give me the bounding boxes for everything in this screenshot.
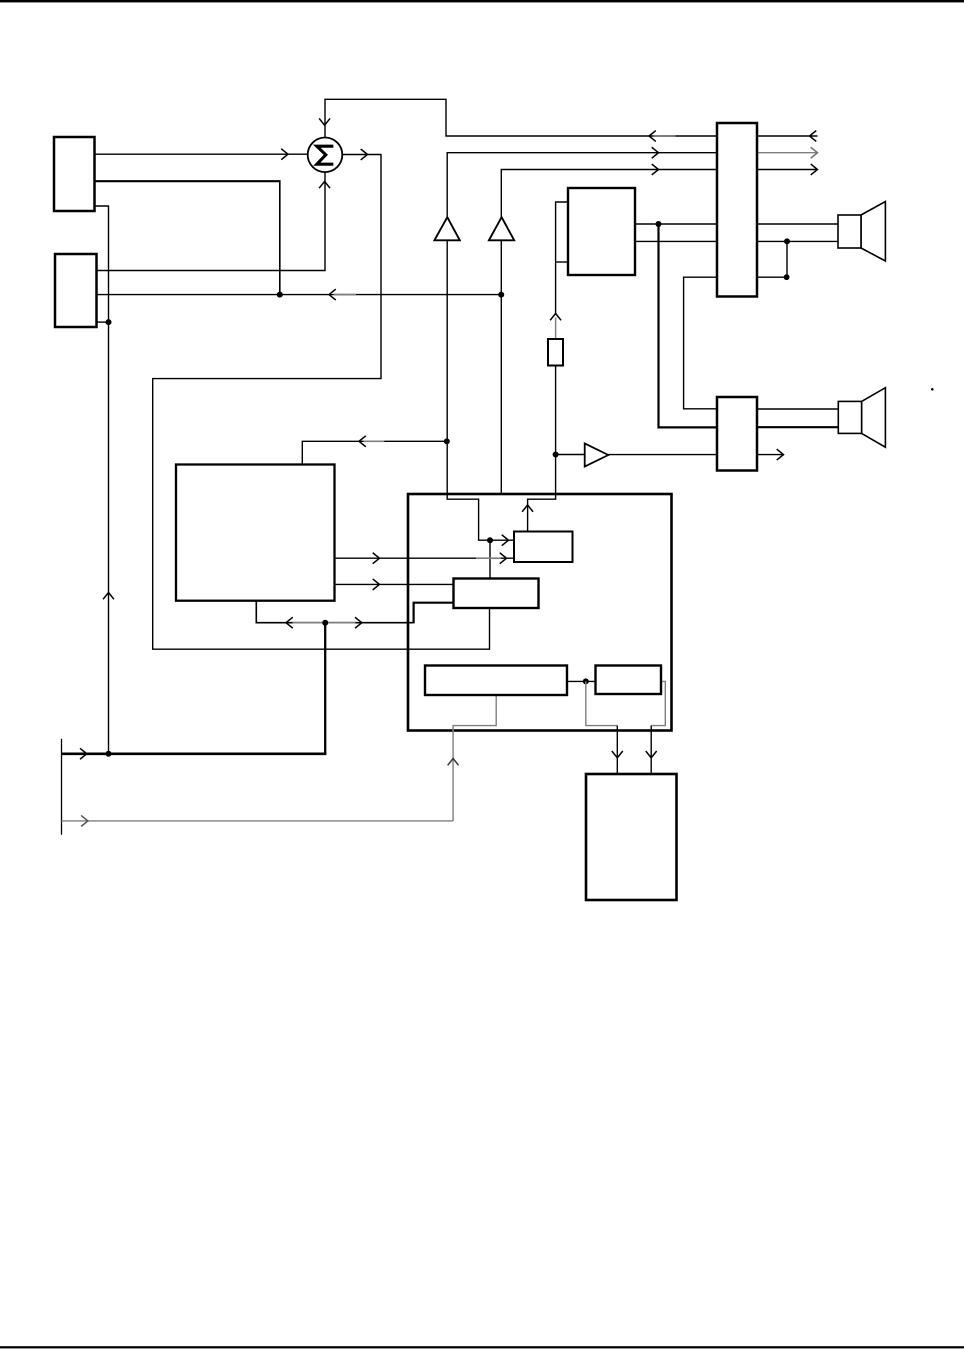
arrow into summing node <box>282 149 288 159</box>
wire J1 right bus mid (gray) <box>756 152 817 154</box>
wire B3 bottom bidirectional bus <box>256 600 413 623</box>
speaker SP1 horn <box>861 202 885 262</box>
wire buffer A1 output through connector J2 <box>608 454 784 456</box>
wire power rail 1 (thick) <box>62 752 327 755</box>
memory block M1 (bottom) <box>586 774 677 900</box>
wire thick from tuner junction to J2 <box>659 224 720 427</box>
main unit block U3 outline <box>408 494 672 731</box>
arrow right on B3 bottom bus <box>356 618 362 628</box>
wire tuner side bus with pin stubs <box>556 202 568 314</box>
amplifier T1 (up) <box>434 217 459 240</box>
small box K4 in main unit <box>596 666 662 695</box>
block B1 (source top left) <box>54 137 95 211</box>
junction dot tuner out1 <box>656 221 662 227</box>
resistor R1 <box>548 339 563 366</box>
arrow right J1 bus mid <box>811 148 817 158</box>
wire resistor R1 to buffer node <box>555 365 557 455</box>
arrow right B3 out2 <box>373 579 379 589</box>
gray tail on feedback arrow <box>364 440 385 442</box>
wire bus to amplifier T2 <box>501 170 719 219</box>
wire summing top feed <box>325 99 719 138</box>
arrow right buffer output <box>777 450 783 460</box>
wire drop to memory block M1 left <box>616 726 618 773</box>
arrow left on B2 bus <box>329 290 335 300</box>
wire feedback from T1 node to block B3 top <box>302 441 447 466</box>
junction dot B2 bus / tri2 line <box>498 292 504 298</box>
junction dot B3 bottom bus <box>322 620 328 626</box>
wire power rail 2 (gray) <box>62 820 454 822</box>
summing junction S1 circle <box>308 138 343 173</box>
amplifier T2 (up) <box>489 217 514 240</box>
connector J1 <box>717 123 757 297</box>
arrow right B3 out1 a <box>373 553 379 563</box>
wire branch down to connector J1 <box>756 241 787 277</box>
wire K3 to K4 link <box>566 680 597 682</box>
wire B1 out1 to summing node <box>92 153 309 155</box>
speaker SP2 driver <box>838 401 861 433</box>
wire B3 out2 to K2 <box>334 583 455 585</box>
wide box K2 in main unit <box>454 579 539 609</box>
wire step up into K2 (thick) <box>414 603 455 624</box>
wire B2 out1 to summing bottom <box>94 173 325 271</box>
arrow down into summing node <box>320 119 330 125</box>
arrow left on top bus <box>649 131 655 141</box>
wire buffer A1 input <box>556 454 586 456</box>
top page rule <box>0 0 964 2</box>
buffer amplifier A1 (right) <box>585 443 609 466</box>
wire B2 bottom stub <box>94 321 109 323</box>
arrow up gray riser <box>448 759 458 765</box>
junction dot K3-K4 link <box>583 678 589 684</box>
wire J2 to speaker SP2 line1 <box>756 408 840 410</box>
arrow right power rail 2 <box>82 816 88 826</box>
arrow left feedback <box>359 436 365 446</box>
wire gray from K4 right edge <box>651 681 665 725</box>
arrow down into M1 left <box>612 752 622 758</box>
arrow left J1 right bus top <box>810 131 816 141</box>
junction dot B1-drop on B2 bus <box>277 292 283 298</box>
wire summing output <box>343 154 382 156</box>
wire T1 output down into main unit <box>447 240 490 541</box>
block B3 (control unit) <box>176 465 335 601</box>
wire B1 out2 (thick) horizontal <box>92 180 280 182</box>
summing junction sigma glyph <box>317 146 332 164</box>
wire inner node to small box K1 <box>490 539 515 541</box>
wire tuner out1 to speaker SP1 <box>634 223 839 225</box>
arrow down into M1 right <box>646 752 656 758</box>
wire J1 right bus top <box>756 135 818 137</box>
junction dot stub/B2 <box>106 319 112 325</box>
gray tail on B2 bus arrow <box>334 294 357 296</box>
arrow right on T1 bus <box>652 148 658 158</box>
wire B1 bottom stub <box>92 206 109 754</box>
speaker SP2 horn <box>862 388 886 448</box>
wire J2 to speaker SP2 line2 (thick) <box>756 426 840 428</box>
wire inner node down to wide box K2 <box>489 540 491 579</box>
arrow left on B3 bottom bus <box>286 618 292 628</box>
junction dot inner node <box>487 537 493 543</box>
wire into main unit to monitor box <box>528 455 556 532</box>
junction dot tuner out2 branch <box>784 238 790 244</box>
block B2 (source lower left) <box>55 254 97 327</box>
junction dot buffer input <box>553 452 559 458</box>
arrow up into summing node <box>320 181 330 187</box>
wire gray riser to K3 <box>453 694 496 821</box>
arrow right power rail 1 <box>81 749 87 759</box>
gray tail on top bus arrow <box>654 135 676 137</box>
tuner block B4 <box>568 188 635 275</box>
gray segment before K1 arrow <box>476 557 501 559</box>
wire B2 out2 bus <box>94 294 501 296</box>
long box K3 in main unit <box>425 666 567 696</box>
wire left terminal bracket <box>61 739 63 835</box>
wire gray drop from K3-K4 link <box>586 681 618 725</box>
junction dot power rail 1 <box>106 751 112 757</box>
tuner lower pin stub <box>556 261 568 263</box>
gray segment on B3 bottom bus <box>293 622 356 624</box>
junction dot branch lower <box>784 274 790 280</box>
arrow right summing output <box>361 150 367 160</box>
wire J1 right bus bottom <box>756 169 817 171</box>
arrow up to tuner <box>551 314 561 320</box>
small box K1 in main unit <box>514 532 573 563</box>
arrow right into K1 <box>502 535 508 545</box>
wire B3 out1 to K1 <box>334 557 516 559</box>
wire gray segment above resistor R1 <box>555 318 557 341</box>
wire tuner out2 to speaker SP1 <box>634 240 839 242</box>
wire bus to amplifier T1 <box>447 153 719 218</box>
wire power riser (thick) <box>324 623 326 755</box>
arrow right B3 out1 b <box>500 553 506 563</box>
junction dot T1 line / feedback wire <box>444 438 450 444</box>
arrow up on left vertical <box>104 593 114 599</box>
arrow right on T2 bus <box>652 165 658 175</box>
connector J2 <box>717 397 757 471</box>
wire B1 out2 drop <box>279 180 281 294</box>
stray dot mark <box>931 388 934 391</box>
speaker SP1 driver <box>838 215 861 248</box>
wire J1 left to J2 <box>684 277 719 409</box>
wire summing output path to main unit <box>153 155 490 650</box>
arrow up monitor output <box>523 505 533 511</box>
wire T2 output down to main unit edge <box>500 240 502 495</box>
bottom page rule <box>0 1346 964 1348</box>
arrow right J1 bus bottom <box>811 165 817 175</box>
wire drop to memory block M1 right <box>650 726 652 773</box>
